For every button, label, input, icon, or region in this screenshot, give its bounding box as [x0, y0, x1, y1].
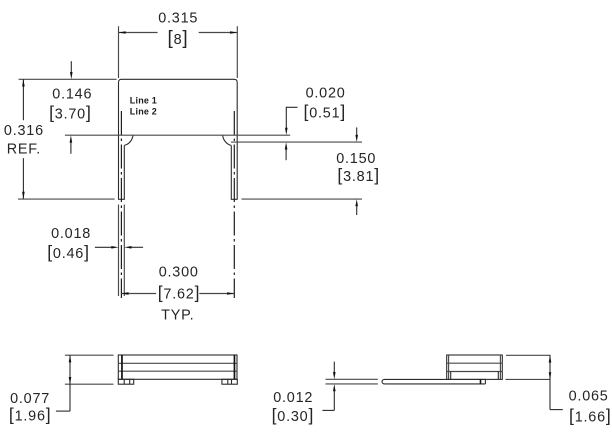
- dimension 0.065 [1.66]: bottom arrowhead (down): [549, 372, 552, 379]
- dimension 0.018 [0.46]: right arrow tail: [131, 246, 143, 248]
- dimension 0.300 [7.62] TYP: dimension line right segment: [199, 293, 234, 295]
- end view: short vertical right: [497, 372, 499, 380]
- end view: lead strip end divider: [480, 379, 482, 384]
- side view: internal seam line upper: [118, 362, 237, 364]
- svg-text:Line 1: Line 1: [130, 96, 157, 106]
- lead right: flare curve: [223, 135, 232, 145]
- dimension 0.012 [0.30]: top extension line: [326, 378, 378, 380]
- svg-text:REF.: REF.: [7, 141, 41, 157]
- svg-text:[0.46]: [0.46]: [47, 242, 90, 262]
- dimension 0.316 REF: dimension line upper segment: [22, 79, 24, 120]
- dimension 0.300 [7.62] TYP: dimension line left segment: [121, 293, 156, 295]
- dimension 0.065 [1.66]: dimension line with tail to leader: [549, 355, 551, 409]
- svg-text:[1.66]: [1.66]: [569, 406, 612, 426]
- dimension 0.077 [1.96]: bottom arrowhead (down): [69, 377, 72, 384]
- lead right: inner edge: [230, 145, 232, 199]
- dimension 0.315 [8]: extension line left: [118, 26, 120, 78]
- svg-text:[7.62]: [7.62]: [158, 282, 201, 302]
- svg-text:0.300: 0.300: [159, 265, 199, 281]
- svg-text:[1.96]: [1.96]: [9, 405, 52, 425]
- dimension 0.315 [8]: dimension line left segment: [119, 32, 158, 34]
- dimension 0.020 [0.51]: up arrowhead: [285, 142, 288, 149]
- dimension 0.146: top arrowhead (down): [70, 72, 73, 79]
- dimension 0.012 [0.30]: top arrow tail: [333, 362, 335, 373]
- dimension 0.300 [7.62] TYP: right arrowhead: [227, 292, 234, 295]
- svg-text:0.315: 0.315: [158, 11, 198, 27]
- end view: internal seam line lower: [447, 371, 503, 373]
- dimension 0.315 [8]: dimension line right segment: [199, 32, 238, 34]
- svg-text:0.012: 0.012: [273, 390, 313, 406]
- dimension 0.146: bottom arrowhead (up): [70, 135, 73, 142]
- dimension 0.315 [8]: extension line right: [236, 26, 238, 78]
- dimension 0.018 [0.46]: left leader line: [95, 246, 112, 248]
- dimension 0.146: bottom arrow tail: [70, 142, 72, 153]
- dimension 0.077 [1.96]: bottom extension line: [65, 383, 114, 385]
- dimension 0.150: bottom extension line (lead bottom, right side): [242, 198, 363, 200]
- dimension 0.020 [0.51]: down arrowhead: [285, 128, 288, 135]
- lead right: bottom cap: [231, 198, 238, 200]
- dimension 0.065 [1.66]: top extension line: [506, 354, 551, 356]
- dimension 0.315 [8]: left arrowhead: [119, 31, 126, 34]
- end view: inner vertical line left: [448, 355, 450, 379]
- svg-text:[3.70]: [3.70]: [49, 103, 92, 123]
- dimension 0.150 [3.81]: bottom arrowhead (up): [355, 199, 358, 206]
- dimension 0.020 [0.51]: up arrow tail: [285, 149, 287, 160]
- svg-text:TYP.: TYP.: [161, 308, 194, 324]
- side view: right lead bar: [234, 355, 236, 379]
- dimension 0.077 [1.96]: top extension line: [65, 354, 114, 356]
- main front view: capacitor body outline with top corner fillets and lead outer edges: [119, 79, 238, 199]
- svg-text:0.018: 0.018: [51, 226, 91, 242]
- end view: body rectangle: [447, 355, 503, 379]
- lead left: bottom cap: [118, 198, 125, 200]
- side view: right foot outline: [222, 379, 237, 384]
- dimension 0.316 REF: bottom extension line: [18, 198, 115, 200]
- dimension 0.018 [0.46]: lead edge extension line right: [123, 205, 125, 297]
- dimension 0.065 [1.66]: leader to text: [550, 409, 563, 411]
- svg-text:Line 2: Line 2: [130, 107, 157, 117]
- dimension 0.300 [7.62] TYP: left arrowhead: [121, 292, 128, 295]
- end view: internal seam line upper: [447, 362, 503, 364]
- dimension 0.020: shoulder extension line: [231, 141, 362, 143]
- dimension 0.018 [0.46]: lead edge extension line left: [118, 205, 120, 297]
- side view: right foot divider 1: [227, 379, 229, 384]
- end view: lead strip end edge: [484, 379, 486, 384]
- dimension 0.077 [1.96]: leader to text: [56, 410, 70, 412]
- end view: flat lead strip: [382, 379, 486, 384]
- lead left: flare curve: [124, 135, 133, 145]
- side view: internal seam line lower: [118, 370, 237, 372]
- dimension 0.065 [1.66]: bottom extension line: [506, 378, 551, 380]
- svg-text:0.146: 0.146: [52, 87, 92, 103]
- dimension 0.012 [0.30]: bottom arrow tail to leader: [333, 391, 335, 410]
- svg-text:[0.51]: [0.51]: [303, 102, 346, 122]
- svg-text:[3.81]: [3.81]: [337, 165, 380, 185]
- svg-text:0.065: 0.065: [569, 389, 609, 405]
- dimension 0.018 [0.46]: left arrowhead (right-pointing): [111, 246, 118, 249]
- dimension 0.065 [1.66]: top arrowhead (up): [549, 355, 552, 362]
- side view: left lead bar: [121, 355, 123, 379]
- dimension 0.146: top extension line (left of body): [19, 78, 117, 80]
- dimension 0.315 [8]: right arrowhead: [230, 31, 237, 34]
- side view: left foot divider 1: [123, 379, 125, 384]
- dimension 0.012 [0.30]: leader to text: [322, 409, 334, 411]
- dimension 0.150 [3.81]: top arrowhead (down): [355, 135, 358, 142]
- dimension 0.012 [0.30]: top arrowhead (down): [333, 372, 336, 379]
- side view: body rectangle: [118, 355, 237, 379]
- svg-text:0.077: 0.077: [10, 391, 50, 407]
- lead left: centerline: [120, 111, 122, 298]
- dimension 0.150 [3.81]: top arrow tail: [356, 127, 358, 135]
- end view: inner vertical line right: [499, 355, 501, 379]
- dimension 0.012 [0.30]: bottom extension line: [326, 383, 378, 385]
- dimension 0.316 REF: dimension line lower segment: [22, 158, 24, 199]
- side view: right foot divider 2: [231, 379, 233, 384]
- dimension 0.146: bottom line through body bottom: [65, 134, 290, 136]
- svg-text:0.020: 0.020: [306, 86, 346, 102]
- dimension 0.316 REF: bottom arrowhead (down): [22, 192, 25, 199]
- svg-text:[0.30]: [0.30]: [272, 405, 315, 425]
- end view: short vertical left: [450, 372, 452, 380]
- dimension 0.077 [1.96]: top arrowhead (up): [69, 355, 72, 362]
- side view: left foot divider 2: [129, 379, 131, 384]
- svg-text:[8]: [8]: [168, 28, 189, 49]
- lead left: inner edge: [123, 145, 125, 199]
- dimension 0.018 [0.46]: right arrowhead (left-pointing): [124, 246, 131, 249]
- dimension 0.077 [1.96]: dimension line with tail to leader: [69, 355, 71, 411]
- side view: left foot outline: [118, 379, 133, 384]
- dimension 0.316 REF: top arrowhead (up): [22, 79, 25, 86]
- dimension 0.150 [3.81]: bottom arrow tail: [356, 206, 358, 215]
- dimension 0.020 [0.51]: leader from text: [286, 107, 297, 128]
- dimension 0.012 [0.30]: bottom arrowhead (up): [333, 384, 336, 391]
- lead right: centerline: [233, 111, 235, 298]
- dimension 0.146: top arrow tail: [70, 61, 72, 72]
- svg-text:0.316: 0.316: [4, 123, 44, 139]
